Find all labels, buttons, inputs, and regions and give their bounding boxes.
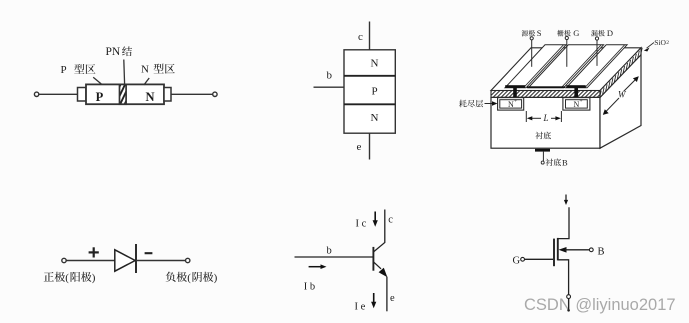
svg-text:G: G bbox=[513, 256, 521, 267]
diode cathode lead wire bbox=[136, 258, 190, 262]
svg-text:b: b bbox=[327, 246, 332, 257]
svg-text:G: G bbox=[573, 28, 579, 38]
leader line from PN junction label bbox=[123, 60, 126, 85]
SiO2 front edge band (hatched) bbox=[484, 90, 609, 99]
diode body P and N regions bbox=[86, 84, 164, 104]
svg-text:B: B bbox=[598, 247, 605, 258]
svg-text:N: N bbox=[371, 112, 379, 124]
W depth dimension arrow bbox=[603, 76, 639, 115]
svg-text:I b: I b bbox=[304, 282, 315, 293]
label chendi (substrate) bbox=[535, 132, 550, 139]
L channel dimension bbox=[526, 111, 561, 122]
MOSFET substrate front face bbox=[491, 97, 600, 148]
svg-text:L: L bbox=[543, 113, 549, 123]
svg-text:+: + bbox=[514, 99, 517, 105]
svg-text:2: 2 bbox=[666, 40, 669, 46]
svg-text:N: N bbox=[371, 58, 379, 70]
svg-text:P: P bbox=[371, 86, 377, 98]
svg-text:I c: I c bbox=[356, 219, 367, 230]
svg-text:P: P bbox=[61, 64, 67, 76]
label zhengji yangji (anode) bbox=[44, 272, 96, 284]
svg-text:e: e bbox=[357, 141, 362, 153]
svg-text:PN: PN bbox=[106, 46, 121, 58]
svg-text:SiO: SiO bbox=[654, 38, 666, 47]
SiO2 right end band (hatched) bbox=[600, 48, 643, 98]
svg-text:(: ( bbox=[187, 272, 191, 284]
drain contact black cap and plug bbox=[566, 85, 585, 97]
source wire with terminal bbox=[558, 260, 571, 312]
label fuji yinji (cathode) bbox=[166, 272, 218, 284]
svg-text:CSDN @liyinuo2017: CSDN @liyinuo2017 bbox=[524, 296, 676, 314]
right N+ well bbox=[563, 98, 590, 111]
label yuanji S (source) bbox=[522, 28, 542, 67]
svg-text:B: B bbox=[562, 158, 568, 168]
minus sign bbox=[145, 252, 153, 254]
wire left lead of PN-junction diode bbox=[34, 92, 77, 96]
MOSFET channel bar bbox=[557, 238, 559, 261]
svg-text:c: c bbox=[358, 31, 363, 43]
label P-xing-qu (P region) bbox=[61, 64, 96, 76]
svg-text:S: S bbox=[537, 28, 542, 38]
source contact black cap and plug bbox=[505, 85, 525, 97]
svg-text:e: e bbox=[390, 293, 395, 304]
divider between top N and middle P bbox=[344, 75, 395, 77]
left N+ well bbox=[498, 98, 524, 111]
base wire bbox=[314, 86, 345, 88]
label N-xing-qu (N region) bbox=[141, 64, 175, 76]
emitter wire bbox=[369, 133, 371, 159]
drain metal strip D bbox=[566, 45, 627, 88]
NPN structure outer box bbox=[344, 50, 395, 133]
svg-text:+: + bbox=[580, 99, 583, 105]
collector current arrow Ic bbox=[373, 212, 378, 227]
collector branch bbox=[373, 210, 384, 253]
diode cathode bar bbox=[135, 244, 137, 273]
SiO2 top face bbox=[491, 48, 641, 91]
svg-text:(: ( bbox=[65, 272, 69, 284]
wire right lead of PN-junction diode bbox=[171, 92, 217, 96]
emitter current arrow Ie bbox=[371, 293, 376, 308]
hatched PN junction region bbox=[111, 84, 135, 105]
gate wire with terminal bbox=[521, 257, 553, 261]
svg-text:): ) bbox=[214, 272, 218, 284]
transistor base bar bbox=[372, 247, 374, 271]
base current arrow bbox=[309, 264, 327, 269]
leader line from P region label bbox=[93, 77, 102, 84]
svg-text:N: N bbox=[145, 90, 154, 104]
svg-text:P: P bbox=[96, 90, 104, 104]
MOSFET gate bar bbox=[553, 239, 555, 267]
substrate bottom contact bar bbox=[535, 149, 550, 152]
label chendi B (substrate B) bbox=[546, 158, 568, 168]
bulk wire with arrow and terminal bbox=[559, 247, 594, 253]
plus sign bbox=[89, 247, 99, 257]
gate metal strip G bbox=[528, 45, 603, 88]
left end cap (anode contact) bbox=[78, 88, 87, 102]
label SiO2 with arrow bbox=[644, 38, 670, 52]
label PN-jie (PN junction) bbox=[106, 46, 133, 58]
divider between middle P and bottom N bbox=[344, 103, 395, 105]
label haojinceng (depletion layer) with arrow bbox=[459, 100, 498, 108]
diode triangle bbox=[115, 250, 135, 271]
svg-text:N: N bbox=[141, 64, 149, 76]
MOSFET substrate right side face bbox=[600, 55, 641, 149]
svg-text:I e: I e bbox=[355, 302, 366, 313]
svg-text:b: b bbox=[327, 70, 333, 82]
right end cap (cathode contact) bbox=[164, 88, 171, 102]
svg-text:): ) bbox=[92, 272, 96, 284]
gate front edge thick line bbox=[527, 86, 566, 88]
leader line from N region label bbox=[144, 78, 149, 85]
transistor base wire bbox=[295, 256, 374, 258]
label zhaji G (gate) bbox=[557, 28, 579, 67]
drain current small arrow bbox=[564, 195, 568, 206]
collector wire bbox=[369, 22, 371, 50]
svg-text:c: c bbox=[388, 215, 393, 226]
substrate B terminal bbox=[541, 152, 544, 165]
diode anode lead wire bbox=[62, 258, 115, 262]
drain wire bbox=[558, 207, 569, 238]
label louji D (drain) bbox=[591, 28, 613, 66]
svg-text:D: D bbox=[607, 28, 613, 38]
source metal strip S bbox=[505, 45, 566, 88]
emitter branch with arrow bbox=[373, 262, 387, 312]
